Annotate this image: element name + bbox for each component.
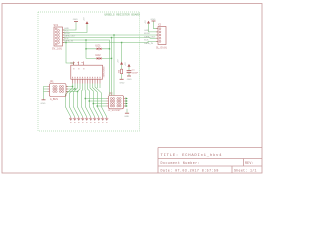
svg-text:GND: GND — [127, 79, 132, 81]
svg-text:GND: GND — [124, 116, 129, 118]
svg-text:JP_SOCKET: JP_SOCKET — [108, 110, 121, 112]
svg-text:DATA_OUT: DATA_OUT — [144, 35, 156, 38]
svg-text:DATA_IN: DATA_IN — [64, 40, 73, 43]
svg-text:A_BUS: A_BUS — [50, 98, 58, 101]
svg-text:DATA_IN: DATA_IN — [144, 42, 153, 45]
svg-text:GND: GND — [144, 30, 149, 32]
svg-text:GND: GND — [151, 19, 156, 21]
svg-text:SV1: SV1 — [54, 24, 59, 27]
svg-text:GND: GND — [41, 103, 46, 105]
svg-text:Document Number:: Document Number: — [161, 161, 201, 165]
svg-text:ILD1: ILD1 — [96, 44, 102, 47]
svg-text:100nF: 100nF — [132, 73, 139, 75]
svg-text:74HC595N: 74HC595N — [104, 66, 106, 77]
svg-text:SL_IO (A): SL_IO (A) — [156, 47, 167, 50]
svg-text:Date: 07.03.2017 8:57:59: Date: 07.03.2017 8:57:59 — [161, 169, 219, 173]
svg-text:JP2: JP2 — [109, 93, 114, 96]
svg-text:IC1: IC1 — [71, 62, 75, 65]
svg-text:ILD2: ILD2 — [96, 54, 102, 57]
svg-text:SCK: SCK — [144, 40, 149, 42]
svg-text:MOSI: MOSI — [144, 33, 150, 35]
svg-text:GND: GND — [120, 83, 125, 85]
svg-text:URGELS REGISTER BOARD: URGELS REGISTER BOARD — [105, 13, 141, 16]
svg-text:TITLE: ECHADIx1_hkv4: TITLE: ECHADIx1_hkv4 — [161, 153, 223, 158]
svg-text:REV:: REV: — [245, 161, 254, 165]
svg-text:Sheet: 1/1: Sheet: 1/1 — [234, 169, 257, 173]
svg-text:SV_1 (A): SV_1 (A) — [52, 48, 62, 51]
svg-text:JP1: JP1 — [50, 81, 55, 84]
svg-text:GND: GND — [73, 19, 78, 21]
